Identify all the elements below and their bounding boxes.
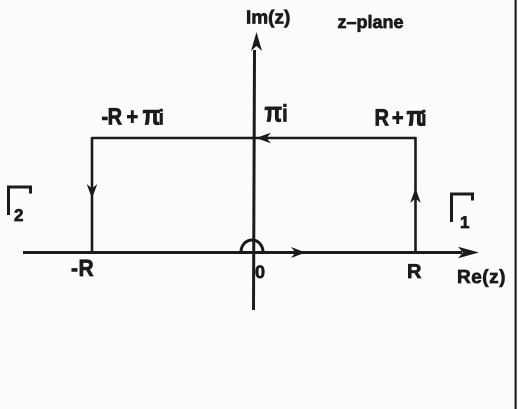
- svg-text:-R: -R: [71, 256, 94, 282]
- svg-text:R + πi: R + πi: [375, 101, 426, 132]
- svg-text:Re(z): Re(z): [457, 267, 506, 288]
- svg-text:2: 2: [14, 206, 23, 225]
- svg-text:0: 0: [255, 262, 265, 282]
- svg-text:Im(z): Im(z): [246, 8, 290, 29]
- svg-text:z–plane: z–plane: [338, 12, 404, 32]
- svg-text:-R + πi: -R + πi: [102, 100, 164, 131]
- svg-text:1: 1: [460, 213, 469, 232]
- svg-text:πi: πi: [265, 96, 288, 127]
- svg-text:R: R: [407, 261, 422, 283]
